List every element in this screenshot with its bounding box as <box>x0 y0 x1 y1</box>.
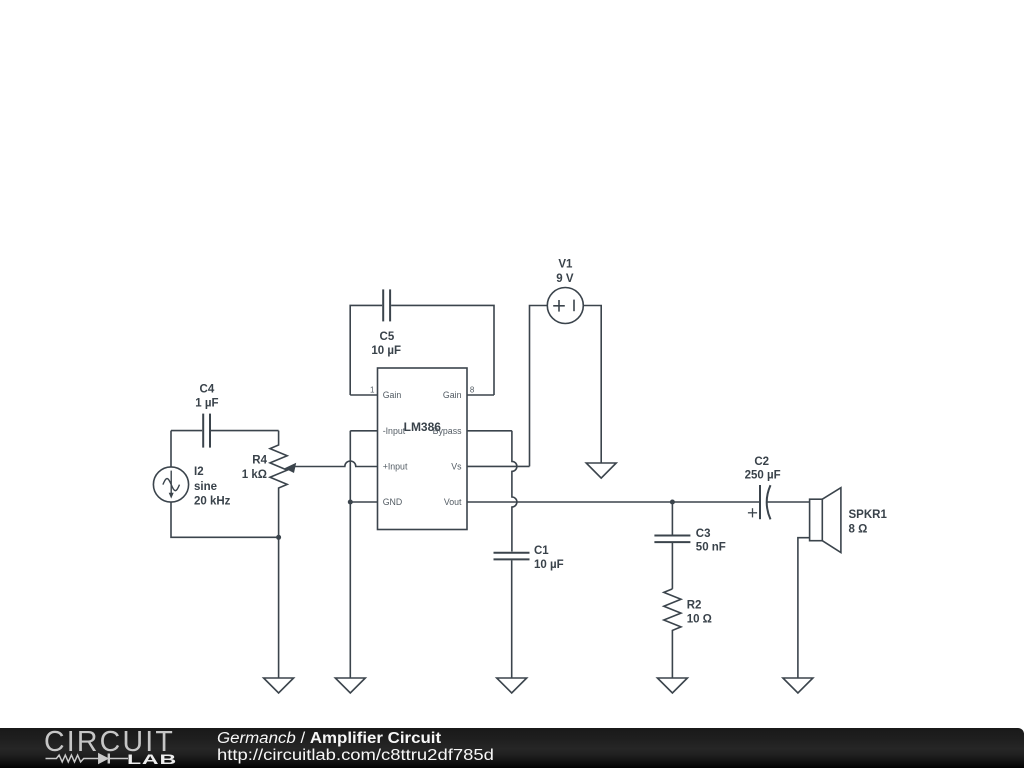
wire wiper to +Input with hop over vertical <box>295 461 378 467</box>
svg-text:C4: C4 <box>200 383 215 395</box>
logo resistor+diode art <box>44 752 134 766</box>
svg-text:Gain: Gain <box>383 390 402 400</box>
label V1 9V <box>556 259 574 286</box>
pin stub Vs <box>467 465 530 467</box>
svg-text:sine: sine <box>194 481 217 493</box>
wire C2 to speaker <box>767 501 810 503</box>
label C1 10uF <box>534 545 564 571</box>
svg-text:9 V: 9 V <box>556 273 574 285</box>
wire C4 right <box>211 430 279 432</box>
junction dot <box>276 535 281 540</box>
pin labels right <box>433 390 462 507</box>
wire speaker bottom to ground <box>798 538 810 678</box>
wire V1 left down to Vs <box>530 306 548 467</box>
svg-text:C2: C2 <box>754 456 769 468</box>
R4 wiper arrow <box>285 463 297 473</box>
junction dot GND pin <box>348 500 353 505</box>
svg-text:-Input: -Input <box>383 426 406 436</box>
wire I2 top stub <box>170 431 172 467</box>
speaker SPKR1 <box>810 488 841 553</box>
logo word LAB <box>127 751 177 767</box>
svg-text:8: 8 <box>470 385 475 394</box>
ground <box>335 678 365 693</box>
op-amp IC U1 LM386 box <box>378 368 468 530</box>
svg-text:R4: R4 <box>252 455 267 467</box>
label C4 1uF <box>195 383 218 409</box>
svg-text:Gain: Gain <box>443 390 462 400</box>
wire I2 bottom to junction <box>171 502 279 537</box>
ground under speaker <box>783 678 813 693</box>
wire C5 left vertical <box>350 305 382 395</box>
potentiometer R4 <box>270 431 287 538</box>
svg-text:Vout: Vout <box>444 497 462 507</box>
svg-text:C5: C5 <box>380 331 395 343</box>
wire C1 bottom to ground <box>511 560 513 678</box>
CircuitLab logo word CIRCUIT <box>44 726 175 759</box>
pin stub GND <box>350 501 377 503</box>
wire C3 top <box>671 502 673 535</box>
svg-text:+Input: +Input <box>383 462 408 472</box>
ground <box>497 678 527 693</box>
svg-text:Vs: Vs <box>451 462 462 472</box>
footer title text <box>217 730 447 765</box>
resistor R2 <box>664 589 681 678</box>
svg-text:C3: C3 <box>696 528 711 540</box>
svg-text:1: 1 <box>370 385 375 394</box>
label C3 50nF <box>696 528 726 554</box>
pin stub Gain right pin 8 <box>467 394 494 396</box>
wire C4 left <box>171 430 202 432</box>
svg-text:8 Ω: 8 Ω <box>849 523 868 535</box>
svg-text:Bypass: Bypass <box>433 426 462 436</box>
wire C5 right to pin8 <box>391 305 494 395</box>
svg-text:C1: C1 <box>534 545 549 557</box>
pin stub Bypass <box>467 430 512 432</box>
svg-text:10 µF: 10 µF <box>534 559 564 571</box>
svg-text:20 kHz: 20 kHz <box>194 495 231 507</box>
svg-text:50 nF: 50 nF <box>696 542 726 554</box>
pin stub Gain left pin 1 <box>350 394 377 396</box>
ground under R2 <box>657 678 687 693</box>
current source I2 <box>153 467 188 502</box>
svg-text:250 µF: 250 µF <box>745 469 781 481</box>
pin stub -Input <box>350 430 377 432</box>
wire C3 bottom to R2 <box>671 543 673 589</box>
wire -Input vertical down to ground <box>349 431 351 678</box>
wire Bypass vertical with two hops <box>512 431 517 552</box>
label R4 1k <box>242 455 268 482</box>
svg-text:1 kΩ: 1 kΩ <box>242 469 267 481</box>
label C2 250uF <box>745 456 781 482</box>
svg-text:10 Ω: 10 Ω <box>687 614 712 626</box>
capacitor C4 <box>203 414 210 448</box>
pin labels left <box>383 390 408 507</box>
svg-text:10 µF: 10 µF <box>371 345 401 357</box>
ground <box>264 678 294 693</box>
svg-text:I2: I2 <box>194 466 204 478</box>
svg-text:GND: GND <box>383 497 403 507</box>
footer bar <box>0 728 1024 768</box>
voltage source V1 <box>547 288 583 324</box>
capacitor C5 <box>383 289 390 321</box>
label C5 10uF <box>371 331 401 357</box>
label SPKR1 8ohm <box>849 509 888 535</box>
svg-text:1 µF: 1 µF <box>195 398 218 410</box>
junction dot Vout/C3 <box>670 500 675 505</box>
wire junction down to ground <box>278 537 280 678</box>
wire V1 right down to ground <box>583 306 601 464</box>
ground under V1 <box>586 463 616 478</box>
capacitor C3 <box>654 536 690 543</box>
capacitor C1 <box>494 553 530 560</box>
wire Vout to C2 <box>467 501 760 503</box>
label R2 10ohm <box>687 599 712 625</box>
label I2 sine 20 kHz <box>194 466 231 508</box>
capacitor C2 polarized <box>748 485 771 519</box>
svg-text:SPKR1: SPKR1 <box>849 509 888 521</box>
svg-text:V1: V1 <box>558 259 573 271</box>
svg-text:R2: R2 <box>687 599 702 611</box>
